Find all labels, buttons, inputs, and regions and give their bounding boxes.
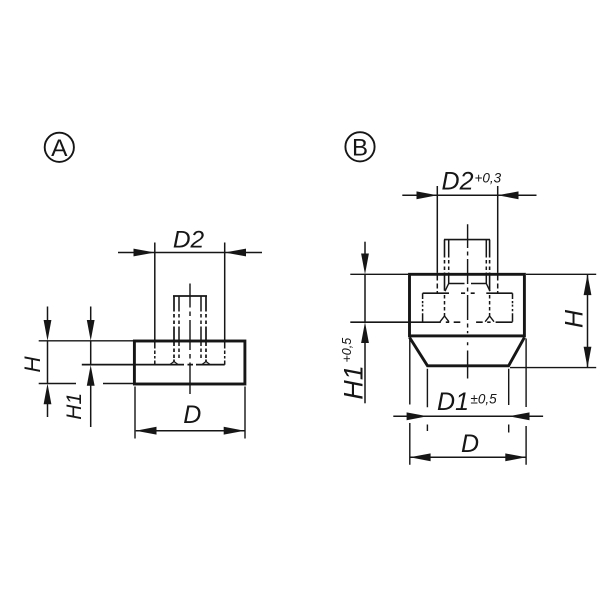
svg-text:D2: D2 <box>173 227 205 254</box>
svg-text:H1: H1 <box>63 393 86 420</box>
svg-text:A: A <box>51 135 68 162</box>
svg-text:H1: H1 <box>339 365 369 400</box>
svg-text:+0,3: +0,3 <box>475 171 502 186</box>
svg-text:D: D <box>461 430 479 458</box>
svg-text:H: H <box>20 356 45 373</box>
svg-text:D2: D2 <box>442 168 474 196</box>
svg-text:+0,5: +0,5 <box>340 338 354 363</box>
svg-text:H: H <box>561 309 589 328</box>
svg-text:±0,5: ±0,5 <box>471 392 498 407</box>
svg-text:B: B <box>352 135 368 162</box>
svg-text:D1: D1 <box>437 388 469 416</box>
svg-text:D: D <box>183 401 201 429</box>
